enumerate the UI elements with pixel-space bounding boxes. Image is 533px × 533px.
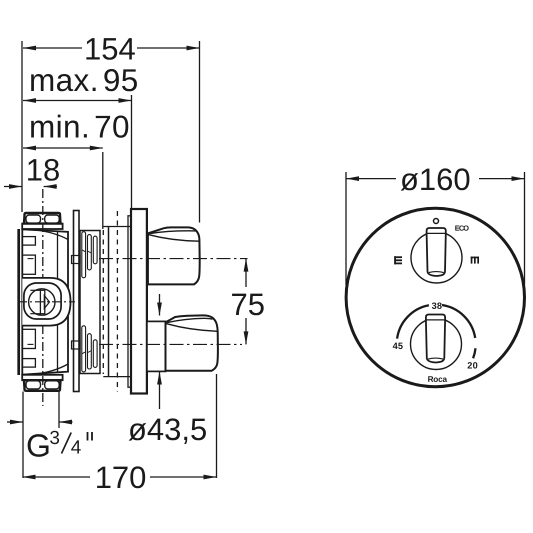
symbol spray left: [394, 256, 402, 264]
svg-text:max.95: max.95: [29, 62, 139, 98]
dimension min.70: [23, 109, 130, 229]
plate D wall flange: [128, 209, 147, 394]
bottom knob front handle: [426, 315, 445, 363]
screw slot: [39, 289, 41, 315]
body left step boxes: [22, 237, 35, 246]
top knob front circle: [411, 232, 462, 283]
svg-text:min.70: min.70: [29, 109, 130, 145]
dimension 18: [4, 153, 60, 189]
side port boss: [18, 278, 75, 326]
svg-text:38: 38: [432, 301, 443, 311]
svg-text:18: 18: [26, 153, 61, 188]
plate A: [72, 211, 81, 392]
top knob front handle: [427, 228, 446, 276]
svg-text:Roca: Roca: [428, 375, 448, 384]
hex fitting bottom: [22, 375, 62, 391]
bottom knob side view: [166, 315, 218, 370]
top knob centerline: [28, 258, 34, 260]
dimension diameter 160: [346, 162, 525, 285]
plate C edge: [108, 227, 110, 377]
dimension diameter 43,5: [128, 294, 207, 447]
svg-text:45: 45: [393, 341, 404, 351]
valve body main column: [22, 229, 68, 374]
plate C top edge: [103, 226, 131, 228]
svg-text:3: 3: [49, 428, 60, 449]
svg-text:75: 75: [230, 287, 265, 322]
dimension 154: [22, 32, 200, 223]
svg-text:G: G: [26, 428, 51, 464]
dimension 75: [230, 259, 265, 345]
temperature scale arc: [397, 305, 475, 358]
side port inner circle: [29, 289, 55, 315]
front plate circle: [346, 208, 524, 386]
valve body back thick edge: [17, 229, 20, 375]
svg-text:ø43,5: ø43,5: [128, 412, 207, 447]
dimension max.95: [23, 62, 139, 209]
dashed plaster line 1: [102, 230, 104, 374]
top knob side view: [148, 227, 200, 284]
bottom knob front circle: [411, 319, 462, 370]
hex fitting top: [22, 213, 62, 229]
side port centerline: [18, 301, 75, 303]
marker o off position: [434, 219, 439, 224]
svg-text:4: 4: [71, 438, 82, 459]
bottom knob centerline: [28, 343, 34, 345]
dimension G 3/4 inch: [7, 392, 92, 479]
svg-text:170: 170: [95, 460, 147, 495]
plate B slotted: [80, 231, 100, 374]
dashed plaster line 2: [116, 211, 118, 392]
svg-text:ECO: ECO: [455, 224, 469, 233]
symbol spray right: [471, 257, 479, 264]
centerline hex vertical: [42, 189, 44, 406]
side port hex head: [24, 283, 61, 319]
bottom knob collar: [147, 321, 166, 371]
svg-text:20: 20: [467, 361, 478, 371]
dimension 170: [23, 374, 217, 495]
plate C bottom edge: [103, 376, 131, 378]
svg-text:ø160: ø160: [400, 162, 471, 197]
